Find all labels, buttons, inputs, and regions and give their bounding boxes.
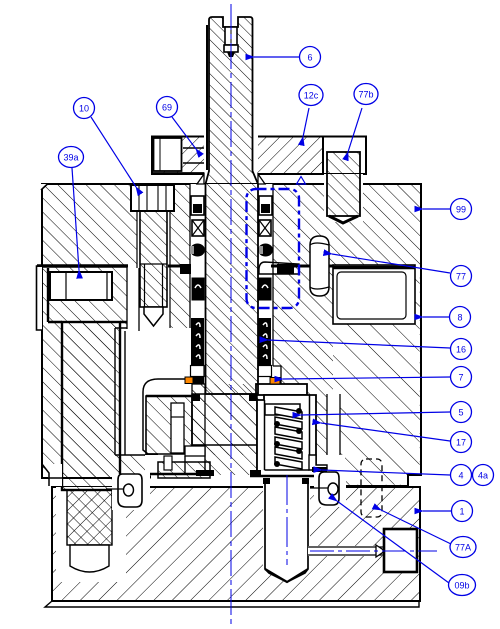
plate stem hole <box>204 135 258 175</box>
seal annulus bore (white) <box>190 184 273 366</box>
balloon 77b <box>354 84 378 105</box>
upper spring seat <box>265 404 300 415</box>
leader 16 <box>268 340 450 348</box>
svg-text:4a: 4a <box>478 471 488 481</box>
plate thread ticks <box>183 147 206 149</box>
main body 99 <box>42 184 421 486</box>
leader 77A <box>381 510 451 544</box>
leader 39a <box>72 168 79 270</box>
svg-text:12c: 12c <box>304 91 319 101</box>
ledge line under 77 <box>271 265 333 268</box>
top-left corner chamfer <box>41 184 48 190</box>
orange seal left 7 <box>185 377 193 384</box>
svg-text:6: 6 <box>307 53 312 63</box>
leader 6 <box>254 56 299 58</box>
left foot <box>118 474 142 507</box>
39a column bore white <box>56 487 126 582</box>
seal stacks <box>180 196 205 365</box>
balloon 77 <box>451 266 472 287</box>
svg-text:09b: 09b <box>454 581 469 591</box>
balloon 16 <box>451 339 472 360</box>
svg-text:1: 1 <box>459 507 464 517</box>
spring cage 17 <box>256 384 307 395</box>
seat zone white band <box>145 455 345 486</box>
balloon 12c <box>299 85 323 106</box>
body outline <box>42 184 421 486</box>
svg-text:39a: 39a <box>63 153 78 163</box>
bottom block 1 <box>52 487 420 601</box>
balloon 4a <box>473 465 494 486</box>
39a cup interior plug <box>50 272 112 300</box>
balloon 10 <box>74 98 95 119</box>
balloon 6 <box>300 47 321 68</box>
leader 10 <box>91 117 136 187</box>
centerline plug <box>286 475 288 565</box>
right foot <box>319 472 339 505</box>
balloon 4 <box>451 465 472 486</box>
svg-text:99: 99 <box>456 205 466 215</box>
svg-text:77: 77 <box>456 272 466 282</box>
balloon 77A <box>450 537 476 558</box>
bolt 10 tip <box>144 307 163 326</box>
cavity 8 <box>333 265 415 324</box>
block: plug bore 09b <box>263 482 310 569</box>
balloon 1 <box>452 501 473 522</box>
balloon 09b <box>449 575 476 596</box>
bolt 10 bore (white) <box>137 211 170 331</box>
leader 8 <box>423 316 449 318</box>
plate hub chamfers <box>197 174 265 184</box>
leader 77b <box>348 108 362 152</box>
hidden pin 77A dashed <box>361 459 382 517</box>
pedestal <box>146 396 192 454</box>
39a thread zone <box>67 490 112 545</box>
leader 5 <box>301 412 450 415</box>
square pocket <box>384 529 417 572</box>
svg-text:17: 17 <box>456 438 466 448</box>
39a tip <box>70 545 109 572</box>
svg-text:77A: 77A <box>455 543 471 553</box>
39a bolt column <box>62 322 120 490</box>
svg-text:16: 16 <box>456 345 466 355</box>
leader 12c <box>303 108 309 137</box>
svg-text:10: 10 <box>79 104 89 114</box>
svg-text:4: 4 <box>458 471 463 481</box>
svg-text:69: 69 <box>162 103 172 113</box>
detail A marker <box>297 177 306 185</box>
svg-text:8: 8 <box>457 313 462 323</box>
leader 99 <box>423 208 450 210</box>
body bottom-left step <box>43 464 63 486</box>
guide bottom flange notches <box>185 446 205 456</box>
detail A dashed box <box>247 189 300 308</box>
cup outline <box>48 268 127 322</box>
77b bore gap <box>324 174 363 222</box>
vertical channel left (white) <box>127 268 139 330</box>
balloons <box>59 47 494 596</box>
centerline main <box>230 4 232 628</box>
leader 09b <box>337 501 449 583</box>
svg-text:5: 5 <box>458 408 463 418</box>
screw in stem <box>225 27 237 45</box>
balloon 39a <box>59 147 84 168</box>
top plate 12c <box>152 137 323 175</box>
balloon 17 <box>451 432 472 453</box>
bolt 10 head <box>131 185 174 211</box>
spring 5 coils <box>275 407 302 469</box>
bolt 10 shank <box>140 211 167 307</box>
left foot pocket <box>112 474 150 510</box>
guide column below stem <box>192 384 205 445</box>
seat flange left <box>158 462 210 478</box>
balloon 99 <box>451 199 472 220</box>
leader 7 <box>283 377 450 379</box>
stem upper <box>206 17 259 394</box>
right channel white <box>327 394 340 460</box>
seal stack bottom steps <box>191 366 205 377</box>
sparser hatch lower-right of body <box>333 268 420 485</box>
chamber outline <box>115 328 158 455</box>
leader 1 <box>423 510 451 512</box>
bottom flange line <box>45 601 419 607</box>
77b <box>327 152 360 216</box>
guide top black corners <box>192 394 257 401</box>
cup top thick line <box>37 264 128 267</box>
rod slot <box>308 546 385 556</box>
orange seal right 7 <box>270 378 280 385</box>
capsule 77 <box>310 243 329 289</box>
seat thick black bars <box>196 470 214 476</box>
leader 69 <box>172 117 196 149</box>
svg-text:7: 7 <box>458 373 463 383</box>
leader 77 <box>332 254 450 273</box>
left chamber (white) <box>115 328 193 455</box>
right foot pocket <box>314 472 346 507</box>
balloon 5 <box>451 402 472 423</box>
cage bottom flange <box>309 455 327 470</box>
svg-text:77b: 77b <box>358 90 373 100</box>
centerline rod <box>310 550 437 552</box>
balloon 8 <box>450 307 471 328</box>
leader 17 <box>321 423 450 441</box>
balloon 7 <box>451 367 472 388</box>
balloon 69 <box>157 97 178 118</box>
leader 4 <box>322 470 450 475</box>
retainer 17 left profile <box>143 379 186 454</box>
left cup flange sliver <box>37 267 43 330</box>
